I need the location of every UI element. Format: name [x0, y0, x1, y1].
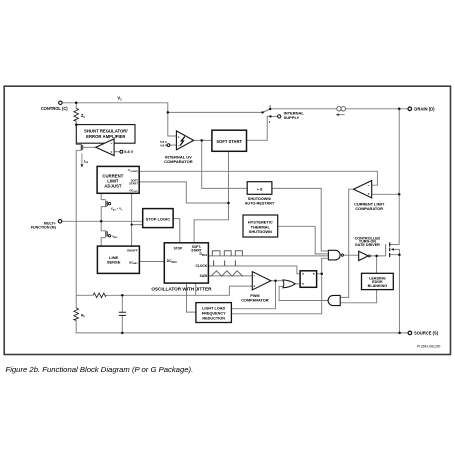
svg-text:COMPARATOR: COMPARATOR: [241, 299, 269, 303]
svg-text:SAW: SAW: [200, 274, 208, 278]
svg-text:STOP: STOP: [174, 246, 183, 250]
svg-text:AUTO-RESTART: AUTO-RESTART: [245, 201, 275, 205]
svg-text:REDUCTION: REDUCTION: [202, 317, 225, 321]
svg-text:OSCILLATOR WITH JITTER: OSCILLATOR WITH JITTER: [151, 287, 212, 292]
svg-text:PWM: PWM: [250, 294, 259, 298]
svg-text:FUNCTION (M): FUNCTION (M): [31, 226, 57, 230]
svg-text:0: 0: [269, 105, 271, 109]
svg-text:SOURCE (S): SOURCE (S): [414, 331, 439, 336]
svg-text:1: 1: [269, 120, 271, 124]
svg-text:SUPPLY: SUPPLY: [284, 115, 300, 120]
svg-text:COMPARATOR: COMPARATOR: [355, 206, 383, 211]
svg-text:FREQUENCY: FREQUENCY: [202, 312, 226, 316]
svg-text:SHUTDOWN/: SHUTDOWN/: [248, 197, 272, 201]
svg-text:SHUNT REGULATOR/: SHUNT REGULATOR/: [84, 128, 128, 133]
svg-text:Figure 2b. Functional Block Di: Figure 2b. Functional Block Diagram (P o…: [6, 365, 194, 374]
svg-text:LIGHT LOAD: LIGHT LOAD: [202, 307, 225, 311]
svg-text:4.8 V: 4.8 V: [160, 143, 167, 147]
svg-text:ERROR AMPLIFIER: ERROR AMPLIFIER: [86, 134, 125, 139]
svg-text:ADJUST: ADJUST: [104, 183, 122, 188]
svg-text:ON/OFF: ON/OFF: [127, 248, 138, 252]
svg-text:COMPARATOR: COMPARATOR: [164, 159, 193, 164]
svg-text:CLOCK: CLOCK: [195, 264, 207, 268]
svg-text:SENSE: SENSE: [107, 260, 121, 265]
svg-text:SOFT START: SOFT START: [216, 139, 242, 144]
svg-text:DRAIN (D): DRAIN (D): [414, 106, 435, 111]
svg-text:PI-2641-061200: PI-2641-061200: [417, 344, 441, 348]
svg-text:SHUTDOWN: SHUTDOWN: [249, 229, 272, 234]
svg-text:÷ 8: ÷ 8: [257, 186, 263, 191]
svg-text:5.8 V: 5.8 V: [124, 150, 133, 154]
svg-text:START: START: [129, 181, 138, 185]
svg-text:CONTROL (C): CONTROL (C): [41, 106, 69, 111]
svg-text:BLANKING: BLANKING: [368, 284, 388, 288]
svg-text:STOP LOGIC: STOP LOGIC: [146, 217, 171, 222]
svg-text:GATE DRIVER: GATE DRIVER: [355, 243, 380, 247]
